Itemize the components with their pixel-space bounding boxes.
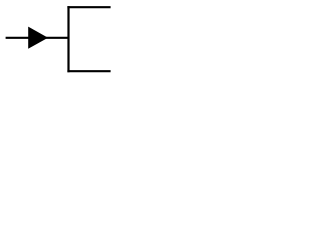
wire vertical	[67, 6, 69, 72]
wire input	[6, 37, 69, 39]
wire bottom branch	[67, 70, 110, 72]
arrowhead	[28, 27, 48, 49]
wire top branch	[67, 6, 110, 8]
